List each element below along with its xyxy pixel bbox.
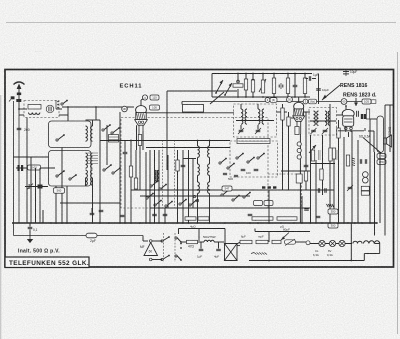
capacitor cap C22 [316, 89, 321, 90]
bus joint 258 [257, 222, 259, 224]
wire r33a [288, 112, 290, 117]
wire vert c5 [188, 150, 190, 223]
scan edge left [0, 95, 2, 339]
resistor R20b [198, 217, 209, 220]
switch osc switch S4e [243, 192, 251, 198]
tube V1 ECH11 [135, 106, 148, 135]
wire h y190b [310, 189, 334, 191]
inductor AF trafo sec [158, 170, 160, 181]
wire coupling bus [62, 106, 134, 108]
wire lamp row wire [310, 243, 352, 245]
wire top link [179, 228, 226, 230]
capacitor cap C35 [304, 209, 309, 210]
wire osc col c [197, 175, 199, 182]
junction rail node 253 [252, 73, 254, 75]
wire chain d [237, 242, 240, 244]
resistor R21 [252, 217, 273, 220]
pin label pin label 163 [122, 106, 128, 112]
wire ul drop2 [254, 229, 256, 232]
bus joint 344 [343, 222, 345, 224]
antenna [14, 82, 25, 110]
wire IF1 v3 [257, 104, 259, 109]
pin label pin v2k3 [297, 155, 301, 159]
junction d177.5 [177, 189, 179, 191]
bus joint 51 [50, 222, 52, 224]
wire vert c0 [149, 150, 151, 223]
capacitor cap C41 [29, 184, 31, 189]
switch osc switch S4b [227, 163, 235, 169]
resistor R9 [261, 80, 264, 93]
arrow marker 7 [354, 98, 358, 106]
dashed box band switch unit [121, 118, 268, 209]
wire V3 cath [348, 132, 350, 137]
wire c38 [200, 242, 202, 249]
wire bracket side [182, 159, 184, 201]
wire vert c146 [145, 152, 147, 223]
wire chain j [364, 253, 379, 255]
wire osc col d [197, 193, 199, 223]
wire r13a [282, 104, 284, 108]
wire vert rg [343, 137, 345, 223]
wire v x136 [135, 150, 137, 178]
text tube label RENS 1823d [343, 93, 377, 99]
wire v x107 [106, 125, 108, 165]
label label 100 [150, 105, 160, 110]
bus joint 100 [99, 222, 101, 224]
wire left wire y186 [25, 186, 48, 188]
switch wave switch S2d [112, 167, 121, 174]
wire drop2 [95, 107, 97, 120]
bus joint 131 [130, 222, 132, 224]
wire r11a [287, 74, 289, 79]
capacitor cap C34 [120, 215, 125, 216]
resistor R osc [129, 166, 132, 177]
capacitor cap C20 [293, 85, 298, 86]
junction rail node 274 [273, 73, 275, 75]
wire spk wire [370, 118, 377, 120]
vertical label marks a [319, 150, 321, 160]
wire r11b [287, 94, 289, 98]
wire c21a [306, 78, 309, 80]
switch tone switch S3a [150, 181, 158, 187]
AF trafo core [156, 170, 157, 182]
bus joint 322 [321, 222, 323, 224]
lamp pilot lamp E3 [339, 240, 345, 246]
tube V2 RENS1816 [293, 102, 305, 134]
inductor L1 variometer [28, 105, 41, 110]
cap top circle b [245, 79, 248, 82]
inductor coil L4 [86, 153, 88, 168]
junction d183 [182, 189, 184, 191]
text label 50 75W [203, 235, 216, 239]
wire r33b [288, 126, 290, 190]
terminal strip [56, 100, 59, 109]
text lamp label3 [328, 249, 332, 253]
switch wave switch S7a [154, 200, 162, 206]
inductor IF1 coil sec2 [262, 109, 264, 124]
resistor cathode R1 [138, 135, 141, 146]
wire osc col a [197, 141, 199, 147]
switch mains switch S6d [175, 255, 182, 261]
label strip IF1 [237, 139, 270, 144]
wire spk wire3 [373, 131, 375, 152]
trim arrow C42 [347, 185, 353, 191]
inductor osc coil L13 [208, 182, 210, 193]
wire vert lamp branch [350, 223, 352, 261]
wire v x120 [119, 112, 121, 223]
wire vert 269 [268, 190, 270, 223]
bus joint 146 [145, 222, 147, 224]
bus joint 377 [376, 222, 378, 224]
wire rail to phono [142, 236, 144, 242]
wire r14b [338, 138, 340, 223]
junction sw node [180, 243, 182, 245]
resistor R8 [251, 80, 254, 92]
wire line y203 [60, 202, 120, 204]
wire V1 osc grid [136, 125, 138, 150]
label label 300a [328, 209, 338, 214]
wire c21b [312, 78, 316, 80]
wire vert rj [364, 128, 366, 131]
resistor R22 [277, 217, 297, 220]
resistor R24 mains dropper [187, 240, 198, 243]
wire vert rm [379, 153, 381, 224]
wire IF out [277, 111, 288, 113]
wire v x125 [124, 140, 126, 152]
label label 300b [328, 223, 338, 228]
inductor coil L3 [91, 126, 93, 141]
wire wire y130 [338, 130, 364, 132]
vertical label marks b [337, 150, 339, 160]
wire vert rn [384, 105, 386, 236]
autotransformer T1 bowtie [225, 244, 241, 261]
dashed box IF transformer 1 [234, 104, 277, 137]
text value 4O2 [280, 225, 285, 229]
wire vert c193 [192, 158, 194, 208]
wire V1 anode out [146, 112, 234, 114]
resistor R7 [244, 79, 247, 90]
cap top circle c [252, 79, 255, 82]
cap C19 [279, 83, 283, 89]
wire feedback wire y91 [167, 90, 237, 92]
switch mains switch S6c [175, 237, 182, 243]
capacitor cap C10 [152, 214, 157, 215]
wire vert ri [357, 140, 359, 223]
wire filter out [56, 108, 62, 110]
wire ant to LW [19, 114, 24, 116]
speaker [384, 135, 392, 147]
capacitor cap C27 [318, 188, 319, 193]
IF1 trim arrows [238, 128, 261, 134]
capacitor IF1 trim C15 [239, 130, 244, 131]
dashed box IF transformer 2 [309, 108, 337, 136]
wire c20a [294, 74, 296, 86]
bus joint 159 [158, 222, 160, 224]
wire left mid wire [14, 156, 49, 158]
bus joint 150 [149, 222, 151, 224]
coil box B [49, 151, 92, 187]
junction rail2 node 295 [294, 96, 296, 98]
bus joint 294 [293, 222, 295, 224]
junction n1 [67, 106, 69, 108]
resistor R27 [272, 240, 281, 243]
wire rail drop a [211, 74, 213, 98]
lamp pilot lamp E1 [319, 240, 325, 246]
capacitor padder C14 [234, 175, 238, 176]
wire grid cap lead2 [141, 99, 143, 100]
wire AVC line [100, 140, 230, 142]
text label 60ohm [283, 228, 290, 232]
switch IF switch S5b [247, 157, 255, 163]
bus joint 209.5 [209, 222, 211, 224]
switch mains switch S6a [161, 236, 170, 242]
speaker frame loop [377, 116, 384, 153]
wire vert c1 [154, 150, 156, 223]
resistor R6 [233, 84, 243, 87]
wire label row wire y101 [182, 101, 370, 103]
bus joint 140 [139, 222, 141, 224]
wire vert rh [351, 131, 353, 223]
switch antenna switch S0 [61, 100, 68, 106]
text lamp label4 [327, 253, 333, 257]
wire ul drop [268, 232, 270, 243]
pin label pin g [142, 95, 147, 100]
contact blocks [361, 114, 367, 119]
scan edge right [397, 52, 399, 334]
wire v2 g [291, 117, 295, 119]
dashed box antenna filter [24, 101, 59, 118]
wire coil col join [86, 119, 101, 121]
IF2 trim arrows [311, 128, 329, 134]
wire r13b [282, 120, 284, 190]
label box v [296, 174, 302, 183]
wire spk wire2 [368, 130, 374, 132]
wire feedback drop x167 [166, 91, 168, 170]
capacitor cap C38 [199, 249, 204, 250]
wire coil col up [92, 120, 94, 126]
wire grid cap lead [140, 100, 142, 106]
wire V2 top lead [298, 97, 300, 102]
wire osc col e [209, 141, 211, 147]
wire chain a [181, 241, 187, 243]
wire left low h [29, 235, 31, 237]
resistor R osc2 [134, 178, 137, 189]
inductor IF1 coil pri [241, 109, 243, 124]
resistor R15 [329, 148, 332, 161]
wire vc11 [164, 208, 166, 223]
tick marks [38, 185, 43, 189]
text value 100p [246, 171, 251, 175]
text value 10c [350, 70, 357, 74]
wire IF1 mid [236, 120, 274, 122]
text value 1uFb [197, 255, 202, 259]
bus joint 67 [66, 222, 68, 224]
wire V1 cath [139, 145, 141, 148]
text value 10n [33, 228, 38, 232]
capacitor cap C11 [163, 214, 168, 215]
wire IF1 v1 [240, 104, 242, 109]
wire vert rl [374, 152, 376, 236]
bus joint 355 [354, 222, 356, 224]
cap C23 [343, 70, 349, 77]
pin label pin 50 [287, 97, 293, 103]
switch osc switch S4a [219, 158, 227, 164]
inductor IF1 coil pri2 [245, 109, 247, 124]
bus joint 236 [235, 222, 237, 224]
wire vert ra [305, 112, 307, 190]
inductor IF2 pri2 [317, 111, 319, 125]
bus joint 362 [361, 222, 363, 224]
inductor AF trafo pri [154, 170, 156, 181]
bus joint 165 [164, 222, 166, 224]
wire chain k [363, 254, 365, 261]
capacitor cap C21 [309, 76, 310, 81]
junction d209.5 [209, 189, 211, 191]
resistor R34 [366, 109, 369, 119]
inductor osc coil L9 [198, 164, 200, 175]
bus joint 281 [280, 222, 282, 224]
junction rail2 node 246 [245, 96, 247, 98]
junction rail node 246 [245, 73, 247, 75]
text lamp label1 [315, 249, 319, 253]
text value 470 [188, 245, 195, 249]
bus joint 92.5 [92, 222, 94, 224]
lamp pilot lamp E2 [329, 240, 335, 246]
switch wave switch S2c [103, 164, 112, 171]
inductor IF1 coil sec [258, 109, 260, 124]
bus joint 62 [61, 222, 63, 224]
junction rail node 288 [287, 73, 289, 75]
bus joint 154.5 [154, 222, 156, 224]
cap top circle a [237, 80, 240, 83]
contact dashes [262, 186, 276, 188]
inductor coil L5 [91, 153, 93, 168]
wire box A to bus [61, 148, 63, 224]
wire v x131b [130, 177, 132, 223]
wire left v 43 [42, 210, 44, 223]
switch IF switch S5a [236, 153, 244, 159]
wire left wire y168 [16, 167, 55, 169]
capacitor cap C30 [365, 159, 366, 164]
wire drop to box A [67, 107, 69, 121]
text value 500c [228, 177, 233, 181]
junction n2 [95, 106, 97, 108]
label label 0-00 [28, 165, 41, 170]
inductor osc coil L11 [208, 146, 210, 157]
junction d150 [149, 189, 151, 191]
wire vert rd [322, 135, 324, 195]
bus joint 183 [182, 222, 184, 224]
wire antenna down lead [13, 101, 15, 236]
wire bottom rail left [14, 235, 144, 237]
wire r8b [252, 92, 254, 97]
dashed box IF switches [230, 141, 278, 177]
inductor osc coil L10 [198, 182, 200, 193]
bus joint 370 [369, 222, 371, 224]
wire osc col b [197, 157, 199, 164]
wire h y171 [281, 170, 310, 172]
bus joint 125 [124, 222, 126, 224]
wire vert r edge [389, 105, 391, 152]
switch mains switch S6b [161, 255, 170, 261]
pin label pin c2 [363, 177, 369, 183]
bus joint 338.5 [338, 222, 340, 224]
inductor IF2 sec2 [328, 111, 330, 125]
wire vert re [329, 104, 331, 223]
title box TELEFUNKEN 552 GLK [5, 257, 89, 268]
wire v x125b [124, 154, 126, 223]
capacitor IF2 trim C24 [311, 130, 316, 131]
ground bus [12, 222, 377, 224]
switch tone switch S3b [159, 184, 167, 190]
pin label pin label v2a [265, 98, 270, 103]
wire left branch [29, 223, 31, 227]
junction rail node 238 [237, 73, 239, 75]
text value 4uFc [254, 218, 259, 222]
junction ret node2 [350, 260, 352, 262]
wire boxB stub [55, 186, 57, 223]
capacitor padder C13 [223, 173, 227, 174]
wire drop x182 [181, 102, 183, 105]
linkage dashed [164, 233, 176, 262]
inductor mains choke L16 [353, 241, 362, 243]
text value 200 [24, 128, 30, 132]
bus joint 177.5 [177, 222, 179, 224]
label table [109, 135, 119, 143]
bus joint 225 [224, 222, 226, 224]
junction e120 [119, 140, 121, 142]
pot terminals [193, 195, 198, 201]
wire line y196 [140, 195, 250, 197]
wire r6b [237, 89, 239, 97]
label label 170 [377, 154, 386, 159]
wire vert rf [333, 150, 335, 210]
label label 105 [362, 99, 371, 104]
wire vert rc [315, 160, 317, 223]
pin label pin 60 [341, 99, 347, 105]
zigzag R29 [251, 253, 267, 255]
bus joint 85.5 [85, 222, 87, 224]
bus joint 302 [301, 222, 303, 224]
capacitor cap C5 [123, 152, 128, 153]
junction V3 top node [345, 105, 347, 107]
trim arrow C41 [27, 184, 33, 190]
wire osc col f [209, 157, 211, 164]
wire r8a [252, 74, 254, 81]
tube V3 RENS1823d [342, 109, 354, 132]
resistor R32 [332, 148, 335, 159]
coil box A [49, 121, 92, 148]
wire vert c3 [177, 150, 179, 223]
junction rail2 node 305 [304, 96, 306, 98]
wire chain b [198, 241, 205, 243]
bus joint 120 [119, 222, 121, 224]
capacitor cap C37 [248, 214, 253, 215]
wire IF1 v2 [240, 125, 242, 130]
wire r10a [273, 74, 275, 79]
pin label pin 3b [303, 99, 308, 104]
inductor coil L6 [86, 170, 88, 185]
text note Inalt 500 ohm [18, 249, 60, 255]
capacitor cap C18 [254, 169, 259, 170]
switch osc switch S4d [232, 195, 240, 201]
pot arrow P4 [224, 83, 232, 96]
wire vert c168 [167, 155, 169, 208]
inductor IF2 pri [314, 111, 316, 125]
bus joint 188.5 [188, 222, 190, 224]
wire vert c4 [182, 150, 184, 223]
text tube label RENS 1816 [340, 83, 368, 89]
